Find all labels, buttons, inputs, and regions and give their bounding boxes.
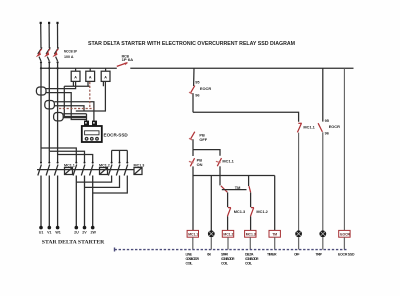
svg-text:U1: U1	[39, 231, 44, 235]
svg-text:DELTA: DELTA	[245, 253, 254, 257]
contactor MC1.2 pole 1	[73, 162, 77, 228]
coil TM (timer coil)	[269, 230, 280, 249]
MCB label MCB 1P 6A	[122, 55, 134, 62]
lamp OFF	[295, 230, 302, 249]
node rail junction L3	[57, 67, 59, 69]
contactor MC1.1 pole 1	[38, 162, 42, 228]
svg-text:2W: 2W	[91, 231, 97, 235]
dashed sensing wire vertical	[89, 82, 91, 109]
contactor MC1.2 pole 2	[81, 162, 85, 228]
timer contact TM right (to delta)	[249, 186, 251, 192]
wire CT3 secondary	[63, 113, 86, 115]
pushbutton ON	[189, 150, 195, 176]
wire phase L2 through rail	[48, 62, 50, 151]
MCCB value label MCCB 3P 100 A	[64, 49, 77, 60]
phase L2 supply terminal	[48, 22, 50, 24]
wire drop to TM coil	[274, 176, 276, 231]
contactor MC1.1 pole 2	[46, 162, 50, 228]
svg-text:MC1.3: MC1.3	[134, 164, 145, 168]
wire phase L1 branch to MC1.2 pole1	[41, 148, 76, 162]
motor terminal 2W	[91, 226, 95, 230]
dashed sensing wire horizontal	[59, 108, 94, 110]
interlock MC1.3 NC (star branch)	[227, 192, 231, 230]
star bridge bar over MC1.3	[112, 149, 128, 151]
contactor MC1.2 pole 3	[90, 162, 94, 228]
wire phase L1 drop to MCCB	[40, 24, 42, 48]
timer contact TM left (to star)	[221, 186, 227, 192]
svg-text:MC1.3: MC1.3	[234, 209, 246, 214]
wire CT1 secondary return	[46, 93, 87, 120]
wire CT2 secondary return	[54, 106, 84, 111]
phase L3 supply terminal	[56, 22, 58, 24]
CT1 current transformer on L1	[36, 87, 46, 95]
svg-text:COIL: COIL	[186, 262, 194, 266]
bottom labels	[186, 253, 355, 266]
EOCR NC contact 95-96	[189, 86, 195, 113]
svg-text:TM: TM	[235, 185, 241, 190]
svg-text:STAR: STAR	[221, 253, 228, 257]
wire CT2 secondary to EOCR terminal 2	[54, 102, 94, 121]
svg-text:MC1.2: MC1.2	[223, 233, 233, 237]
wire phase L1 through rail	[40, 62, 42, 148]
contactor MC1.2 coil symbol	[100, 168, 108, 175]
svg-text:EOCR-SSD: EOCR-SSD	[104, 133, 129, 138]
wire EOCR terminal 1 drop	[86, 114, 88, 121]
lamp TRIP	[319, 230, 326, 249]
contactor MC1.1 coil symbol	[65, 168, 73, 175]
motor terminal 2U	[75, 226, 79, 230]
svg-text:OFF: OFF	[199, 137, 207, 142]
node A rail	[193, 175, 275, 177]
svg-text:2V: 2V	[82, 231, 87, 235]
EOCR-SSD relay body	[82, 121, 102, 142]
svg-text:EOCR: EOCR	[329, 124, 340, 129]
wire main vertical to MC1.1 coil	[192, 176, 194, 231]
svg-text:100 A: 100 A	[64, 54, 74, 59]
label PB ON	[197, 158, 203, 167]
timer contact link bar	[222, 189, 247, 191]
timer changeover left drop	[219, 176, 221, 186]
svg-text:EOCR: EOCR	[340, 233, 350, 237]
contactor MC1.3 pole 2	[85, 162, 121, 188]
svg-text:A: A	[104, 75, 107, 79]
wire phase L1 to MC1.1 pole1	[40, 148, 42, 162]
node rail junction L1	[40, 67, 42, 69]
svg-text:OFF: OFF	[294, 253, 300, 257]
svg-text:MC1.1: MC1.1	[188, 233, 198, 237]
svg-text:A: A	[89, 75, 92, 79]
label 95 EOCR 96 (trip)	[325, 118, 341, 136]
coil EOCR SSD	[339, 230, 351, 249]
node rail junction L2	[48, 67, 50, 69]
motor terminal W1	[56, 226, 60, 230]
MCCB Q1 pole 1	[36, 47, 42, 61]
motor terminal labels	[39, 231, 97, 235]
motor terminal V1	[48, 226, 52, 230]
ammeter stub wires	[73, 81, 103, 86]
svg-text:ON: ON	[197, 162, 203, 167]
svg-text:CONTACTOR: CONTACTOR	[221, 257, 235, 261]
node phase L2	[48, 61, 50, 63]
ammeter A2 box	[86, 68, 95, 81]
wire drop to ON lamp	[210, 176, 212, 231]
interlock MC1.2 NC (delta branch)	[250, 193, 254, 231]
contactor linkage line across poles and coils	[37, 169, 134, 171]
MCCB Q1 pole 3	[52, 47, 58, 61]
svg-text:MC1.1: MC1.1	[303, 124, 315, 129]
ammeter A1 box	[71, 68, 80, 81]
wire phase L3 through rail	[57, 62, 59, 154]
EOCR coil column from rail	[343, 68, 345, 230]
wire ammeter bus under boxes	[64, 85, 90, 87]
wire phase L3 drop to MCCB	[57, 24, 59, 48]
svg-text:A: A	[74, 75, 77, 79]
svg-text:W1: W1	[55, 231, 60, 235]
svg-text:ON: ON	[207, 253, 211, 257]
wire phase L3 branch to MC1.2 pole3	[58, 155, 93, 163]
wire phase L2 to MC1.1 pole2	[48, 151, 50, 162]
wire ammeter A3 drop across	[76, 81, 106, 111]
svg-text:EOCR: EOCR	[200, 86, 211, 91]
svg-text:TIMER: TIMER	[267, 253, 277, 257]
svg-text:CONTACTOR: CONTACTOR	[245, 257, 259, 261]
motor terminal 2V	[83, 226, 87, 230]
pushbutton OFF	[189, 132, 195, 150]
label 95 EOCR 96	[195, 79, 211, 97]
motor terminal U1	[39, 226, 43, 230]
label PB OFF	[199, 132, 207, 142]
svg-text:MC1.2: MC1.2	[256, 209, 268, 214]
star bridge drop 1	[111, 150, 113, 162]
control supply rail right segment	[130, 67, 353, 69]
svg-text:EOCR SSD: EOCR SSD	[338, 253, 355, 257]
ammeter A3 box	[101, 68, 110, 81]
contact MC1.1 NO (off lamp)	[297, 123, 301, 231]
svg-text:STAR DELTA STARTER WITH ELECTR: STAR DELTA STARTER WITH ELECTRONIC OVERC…	[88, 41, 295, 47]
contactor MC1.1 pole 3	[54, 162, 58, 228]
svg-text:MCCB 3P: MCCB 3P	[64, 49, 77, 54]
node phase L3	[57, 61, 59, 63]
MCB 1P 6A control breaker	[117, 63, 128, 67]
phase L1 supply terminal	[40, 22, 42, 24]
wire parallel branch top	[193, 150, 220, 156]
lamp ON	[208, 230, 215, 249]
neutral dashed rail	[115, 248, 348, 252]
svg-text:COIL: COIL	[245, 262, 253, 266]
contactor MC1.3 pole 3	[93, 162, 129, 193]
star bridge drop 3	[126, 150, 128, 162]
star bridge drop 2	[119, 150, 121, 162]
wire branch to OFF lamp column	[193, 112, 299, 122]
svg-text:MC1.2: MC1.2	[99, 164, 110, 168]
svg-text:TM: TM	[272, 233, 277, 237]
wire left loop to EOCR terminal 1	[64, 86, 86, 116]
coil MC1.1 (line contactor coil)	[187, 230, 198, 249]
EOCR NO trip contact	[318, 123, 323, 231]
svg-text:STAR DELTA STARTER: STAR DELTA STARTER	[42, 240, 105, 246]
coil MC1.2 (star contactor coil)	[222, 230, 233, 249]
svg-text:V1: V1	[47, 231, 51, 235]
CT3 current transformer on L3	[54, 113, 64, 121]
svg-text:MC1.1: MC1.1	[64, 164, 75, 168]
wire phase L2 branch to MC1.2 pole2	[49, 151, 84, 162]
coil MC1.3 (delta contactor coil)	[245, 230, 256, 249]
timer changeover right drop	[248, 176, 250, 187]
svg-text:1P 6A: 1P 6A	[122, 58, 134, 62]
wire CT3 secondary return	[63, 117, 86, 119]
node phase L1 / control tap	[40, 61, 42, 63]
wire phase L3 to MC1.1 pole3	[57, 155, 59, 163]
svg-text:MC1.1: MC1.1	[222, 158, 234, 163]
control supply rail left segment	[41, 67, 117, 69]
wire CT1 secondary to ammeter A1	[46, 81, 76, 88]
CT2 current transformer on L2	[45, 101, 55, 109]
svg-text:TRIP: TRIP	[316, 253, 323, 257]
contact MC1.1 holding aux	[216, 158, 222, 175]
svg-text:COIL: COIL	[221, 262, 229, 266]
contactor MC1.3 pole 1	[76, 162, 112, 183]
contactor MC1.3 coil symbol	[134, 168, 142, 175]
svg-text:2U: 2U	[74, 231, 79, 235]
svg-text:CONTACTOR: CONTACTOR	[186, 257, 200, 261]
svg-text:LINE: LINE	[186, 253, 193, 257]
TRIP column from rail	[322, 68, 324, 121]
wire phase L2 drop to MCCB	[48, 24, 50, 48]
svg-text:MC1.3: MC1.3	[246, 233, 256, 237]
MCCB Q1 pole 2	[44, 47, 50, 61]
control main vertical top	[193, 68, 195, 86]
